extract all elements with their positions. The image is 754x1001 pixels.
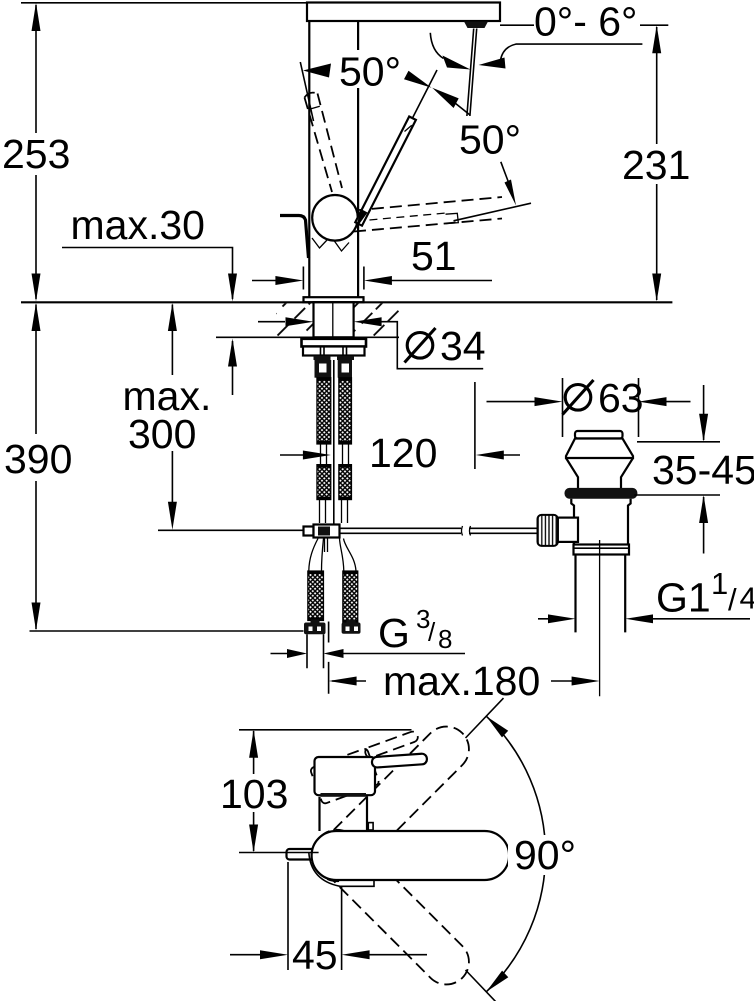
svg-text:4: 4 (740, 581, 754, 616)
left supply hose lower braid (317, 465, 331, 500)
counter hatching right (354, 303, 399, 336)
0-6 deg right leader (501, 44, 643, 60)
90 deg arc radial extension top (466, 698, 504, 738)
drain centerline (599, 540, 601, 696)
lever centerline extension (413, 70, 438, 118)
90 deg arc bottom arrowhead (486, 971, 508, 992)
arrow B-bottom (505, 180, 517, 206)
dimension extension line top (21, 2, 307, 4)
handle lever (top view) (372, 753, 428, 767)
svg-text:50°: 50° (339, 49, 401, 95)
pop-up rod knob (left hook) (280, 216, 309, 259)
103 dimension line (249, 730, 258, 853)
G3/8 dimension arrows (271, 649, 466, 658)
51 dimension arrows (252, 276, 492, 285)
drain side port (558, 518, 578, 542)
253 dimension line (35, 5, 37, 299)
hose tube lines in gap (321, 444, 349, 465)
max.30 down arrow (228, 274, 237, 302)
390 dimension line (35, 305, 37, 630)
max180 dimension (329, 677, 600, 686)
231 bottom arrow (652, 274, 661, 302)
51 extension lines (303, 267, 364, 290)
svg-text:max.180: max.180 (383, 658, 540, 704)
G 3/8 label (378, 604, 452, 656)
svg-text:0°- 6°: 0°- 6° (534, 0, 637, 45)
svg-text:390: 390 (4, 436, 72, 482)
left hose curve to connector (309, 539, 324, 572)
dashed handle rotated (310, 730, 429, 804)
svg-text:63: 63 (598, 375, 644, 421)
G3/8 thread extension lines (307, 634, 324, 668)
max300 extension line (158, 529, 304, 531)
90 deg arc radial extension bottom (466, 970, 501, 1001)
dashed handle chevrons (closed position) (312, 238, 327, 248)
svg-text:231: 231 (622, 142, 690, 188)
arrow B-top (432, 88, 459, 108)
right supply hose upper braid (339, 378, 352, 444)
drain neck (566, 458, 633, 488)
counter bottom line (216, 336, 399, 338)
pop-up rod tab (top view) (287, 849, 319, 860)
0-6 deg right arrowhead (479, 58, 506, 69)
horizontal pop-up rod (340, 526, 538, 536)
drain tailpipe (576, 555, 626, 633)
svg-text:/: / (728, 582, 737, 617)
right hose curve to connector (340, 539, 357, 572)
leader from lever line to 50 deg label B (455, 103, 470, 115)
Ø63 dimension arrows (487, 397, 691, 406)
120 dimension arrows (280, 382, 520, 469)
dashed spout centerline extension (454, 203, 532, 221)
390 top arrow (32, 303, 41, 331)
231 dimension line (656, 27, 658, 300)
35-45 top arrow (699, 385, 708, 442)
svg-text:90°: 90° (514, 832, 576, 878)
max.30 up arrow below counter (228, 339, 237, 396)
neck notch (368, 823, 373, 830)
45 extension lines (288, 862, 342, 970)
svg-text:8: 8 (438, 624, 452, 654)
svg-text:300: 300 (128, 411, 196, 457)
dashed spout swivel SE (305, 820, 478, 993)
spout (top view) (312, 831, 510, 880)
45 dimension arrows (230, 950, 427, 959)
svg-text:120: 120 (369, 430, 437, 476)
svg-text:G1: G1 (656, 575, 711, 621)
svg-text:51: 51 (411, 233, 457, 279)
dashed spout swivel NE (305, 717, 478, 890)
right braided connector hose (343, 571, 358, 623)
handle body (top view) (315, 757, 376, 795)
35-45 extension lines (634, 442, 720, 495)
left supply hose upper braid (317, 378, 331, 444)
svg-text:G: G (378, 610, 410, 656)
253 top arrow (32, 3, 41, 31)
drain plug cap (575, 431, 623, 439)
svg-text:103: 103 (220, 771, 288, 817)
right hose fitting (338, 360, 352, 378)
390 bottom arrow (32, 603, 41, 631)
hose tubes below braid (320, 500, 348, 523)
svg-text:253: 253 (2, 131, 70, 177)
90 deg swivel arc (486, 716, 545, 992)
arrow B-bottom leader (501, 162, 510, 185)
Ø63 extension lines (563, 378, 639, 437)
50 deg label A background (336, 50, 410, 88)
253 bottom arrow (32, 274, 41, 302)
max300 label (123, 373, 212, 457)
svg-text:45: 45 (292, 932, 338, 978)
rod stub below junction (325, 538, 328, 553)
drain body upper (571, 499, 630, 545)
103 extension line bottom (239, 852, 319, 854)
mounting nut (303, 347, 365, 356)
knurled adjuster knob (538, 515, 558, 546)
counter top line (21, 301, 672, 303)
spout bar (307, 3, 500, 22)
90 deg label (508, 832, 586, 878)
231 top arrow (652, 25, 661, 53)
body bottom edge (321, 793, 367, 797)
arrow A-left (303, 64, 331, 78)
35-45 bottom arrow (699, 495, 708, 554)
dashed handle (vertical position) (305, 93, 343, 192)
aerator (464, 22, 488, 29)
svg-text:/: / (428, 617, 436, 647)
G1 1/4 dimension arrows (538, 614, 750, 623)
faucet base plate (304, 297, 364, 302)
dashed spout rotated down (354, 197, 502, 232)
right supply hose lower braid (339, 465, 352, 500)
escutcheon arc below spout (309, 852, 374, 886)
0-6 deg left arrowhead (443, 56, 471, 70)
mounting flange (302, 339, 367, 347)
103 extension line top (239, 729, 412, 731)
left braided connector hose (308, 571, 324, 621)
390 extension line bottom (30, 630, 304, 632)
90 deg arc top arrowhead (486, 716, 508, 737)
counter hatching left (276, 303, 314, 336)
Ø63 label (563, 375, 644, 421)
pop-up rod T junction (304, 525, 340, 538)
hose fitting collars (314, 356, 355, 360)
pop-up rod vertical (333, 360, 335, 524)
svg-text:1: 1 (711, 566, 728, 601)
G1 1/4 label (656, 566, 754, 621)
45 label (291, 932, 339, 978)
max300 top arrow (168, 303, 177, 331)
Ø34 dimension arrows (258, 317, 483, 369)
svg-text:34: 34 (440, 323, 486, 369)
svg-text:50°: 50° (459, 117, 521, 163)
right G3/8 connector nut (342, 620, 361, 634)
left G3/8 connector nut (304, 620, 326, 635)
dashed aerator at spout tip (446, 213, 459, 223)
left hose fitting (315, 360, 332, 378)
0-6 deg angle left arc (430, 33, 443, 59)
svg-text:35-45: 35-45 (652, 447, 754, 493)
angle arrow at lever base (355, 209, 368, 230)
drain top flange (566, 439, 633, 459)
max300 dimension line (171, 305, 173, 522)
solid lever handle (355, 117, 416, 226)
neck (top view) (320, 797, 368, 831)
max300 bottom arrow (168, 502, 177, 530)
faucet body column (309, 21, 358, 298)
drain lower nut (574, 545, 630, 555)
max.30 leader (62, 248, 233, 300)
handle ball joint circle (312, 195, 358, 241)
threaded shank (314, 302, 354, 337)
svg-text:max.30: max.30 (71, 202, 205, 248)
max180 extension line (328, 622, 330, 694)
drain O-ring (565, 488, 638, 499)
arrow A-right (404, 71, 432, 88)
dashed handle centerline (300, 62, 313, 121)
water stream (467, 29, 477, 117)
0-6 label leader line (500, 24, 668, 26)
Ø34 label (405, 323, 486, 369)
